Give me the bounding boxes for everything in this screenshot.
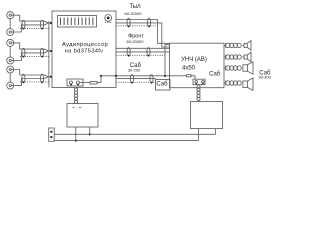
connector J6 (RCA input 6) <box>7 82 14 89</box>
svg-text:60-20000: 60-20000 <box>125 11 143 16</box>
cable front tie ellipse B <box>147 48 150 57</box>
svg-text:Саб: Саб <box>156 82 168 88</box>
svg-text:Аудипроцессор: Аудипроцессор <box>62 42 108 48</box>
wire signal J4 <box>11 53 23 61</box>
svg-text:УНЧ (АВ): УНЧ (АВ) <box>181 57 207 63</box>
cable W1 tie ellipse B <box>40 20 43 29</box>
battery connector box <box>49 128 55 141</box>
svg-text:на bd37534fv: на bd37534fv <box>65 48 104 54</box>
wire signal J2 <box>11 25 23 32</box>
wire signal J1 <box>11 15 23 21</box>
block PSU1 <box>67 104 98 128</box>
encoder knob <box>105 15 112 22</box>
cable W2 shield dotted <box>20 55 49 57</box>
speaker cable spring 3 <box>224 67 226 69</box>
wire signal J5 <box>11 70 23 76</box>
svg-text:60-20000: 60-20000 <box>127 39 145 44</box>
cable rear shield dotted <box>116 25 156 27</box>
cable W3 shield dotted <box>20 81 49 83</box>
speaker SP2 <box>244 55 247 59</box>
cable W1 conductors <box>23 21 48 23</box>
cable front tie ellipse A <box>127 48 130 57</box>
svg-text:30-200: 30-200 <box>128 68 141 73</box>
cable sub shield dotted <box>116 81 156 83</box>
speaker cable spring 4 <box>224 82 226 84</box>
speaker SP1 <box>244 43 247 47</box>
power cable spring U2 <box>197 85 200 88</box>
block PSU2 <box>191 102 223 129</box>
wire power bus minus <box>54 140 198 142</box>
cable sub tie ellipse B <box>150 75 153 84</box>
wire shield bus <box>48 21 50 88</box>
wire remote run <box>101 75 187 77</box>
cable W3 tie ellipse B <box>40 74 43 83</box>
wire power bus plus <box>54 133 215 135</box>
cable W3 conductors <box>23 75 48 77</box>
block U2 amplifier <box>170 43 225 87</box>
connector J1 (RCA input 1) <box>7 12 14 19</box>
cable rear tie ellipse B <box>147 18 150 27</box>
cable W2 tie ellipse B <box>40 48 43 57</box>
cable rear conductors <box>116 20 170 44</box>
node input 1 <box>48 22 52 24</box>
cable sub tie ellipse A <box>130 75 133 84</box>
sub input box <box>156 80 171 91</box>
cable sub conductors <box>116 78 156 80</box>
power terminal box U2 <box>193 79 205 84</box>
connector J3 (RCA input 3) <box>7 39 14 46</box>
svg-text:30-300: 30-300 <box>258 74 271 79</box>
connector J5 (RCA input 5) <box>7 66 14 73</box>
fuse F2 <box>187 75 192 77</box>
svg-text:Тыл: Тыл <box>129 4 141 10</box>
wire PSU1 to bus <box>75 127 77 141</box>
speaker cable spring 2 <box>224 56 226 58</box>
wire signal J3 <box>11 43 23 49</box>
cable W2 conductors <box>23 49 48 51</box>
wire remote riser <box>165 45 170 76</box>
wire PSU2 to bus <box>198 129 200 141</box>
connector J2 (RCA input 2) <box>7 29 14 36</box>
cable W1 tie ellipse A <box>22 20 25 29</box>
cable W1 shield dotted <box>20 27 49 29</box>
power cable spring U1 <box>74 88 77 91</box>
node input 2 <box>48 50 52 52</box>
block U1 audio processor <box>52 11 116 88</box>
wire remote from fuse <box>97 76 101 83</box>
speaker SP3 <box>243 65 248 71</box>
node remote junction <box>164 75 166 77</box>
cable front conductors <box>116 47 170 49</box>
node input 3 <box>48 76 52 78</box>
cable W2 tie ellipse A <box>22 48 25 57</box>
power terminal box U1 <box>67 79 83 86</box>
cable front shield dotted <box>116 54 166 56</box>
cable rear tie ellipse A <box>127 18 130 27</box>
wire shield stem pair1 <box>9 19 11 29</box>
connector J4 (RCA input 4) <box>7 57 14 64</box>
speaker SP4 sub <box>243 81 248 87</box>
wire signal J6 <box>11 79 23 86</box>
svg-text:Саб: Саб <box>209 72 221 78</box>
fuse F1 <box>80 82 91 84</box>
display DS1 <box>58 16 97 28</box>
wire shield stem pair2 <box>9 46 11 57</box>
cable W3 tie ellipse A <box>22 74 25 83</box>
speaker cable spring 1 <box>224 44 226 46</box>
svg-text:4х50: 4х50 <box>182 66 196 72</box>
wire shield stem pair3 <box>9 73 11 82</box>
